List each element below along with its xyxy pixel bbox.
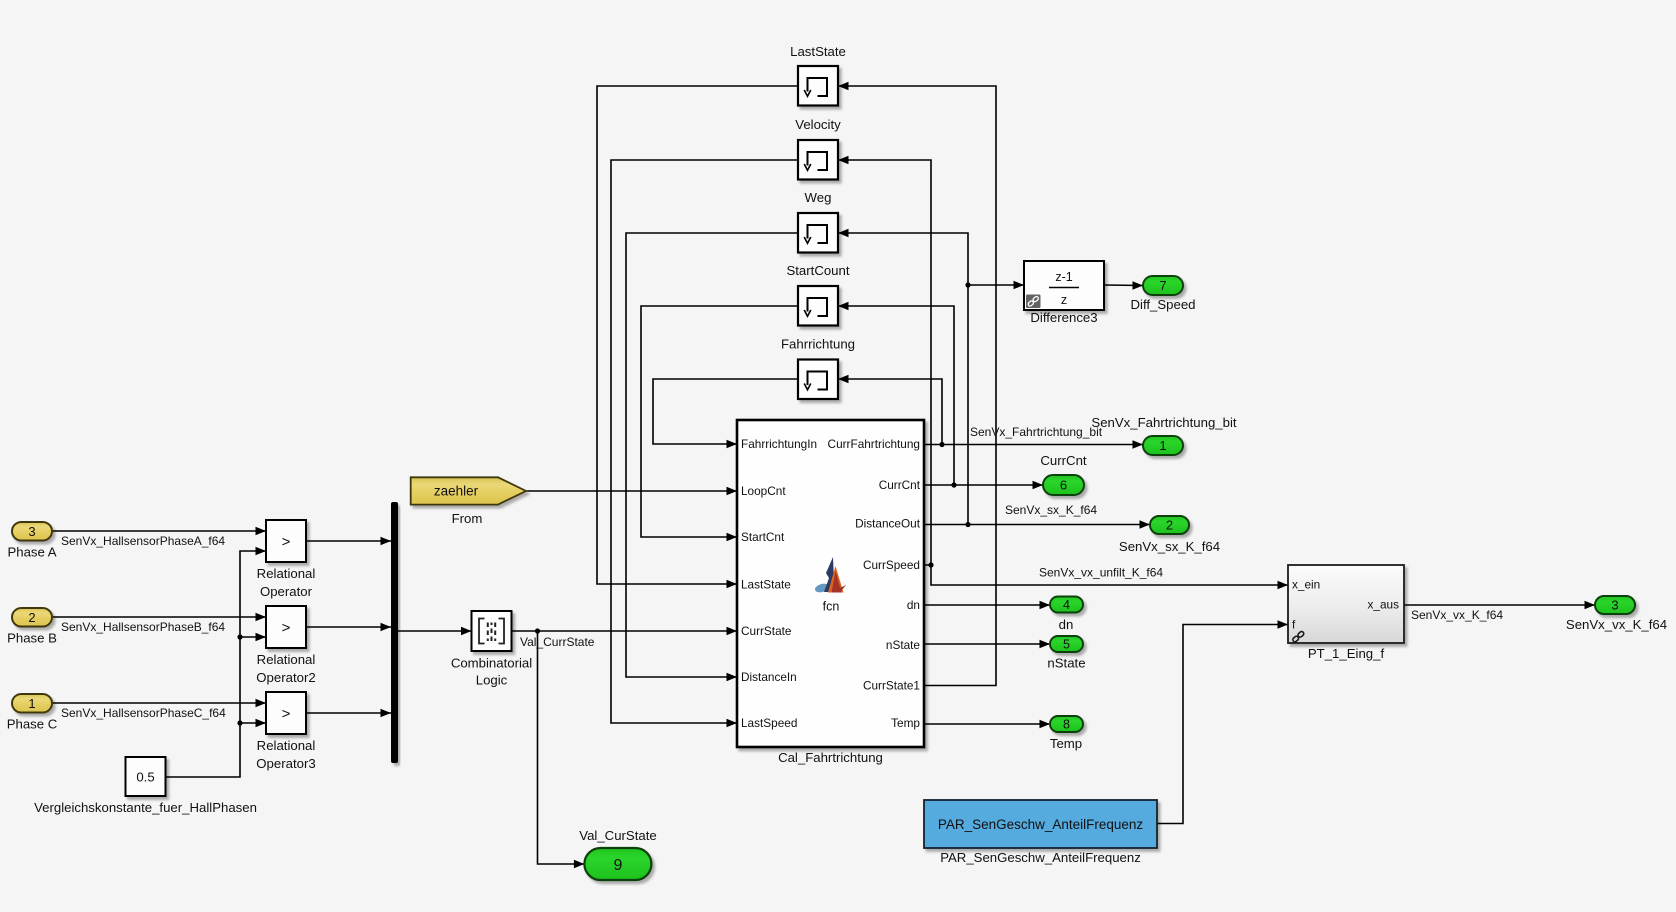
svg-text:2: 2: [28, 610, 35, 625]
svg-text:4: 4: [1063, 598, 1070, 612]
wire CurrState1 feedback to LastState memory: [838, 86, 996, 686]
svg-text:SenVx_Fahrtrichtung_bit: SenVx_Fahrtrichtung_bit: [970, 425, 1103, 439]
wire LastState memory out to fcn LastState: [597, 86, 798, 584]
memory block Fahrrichtung: [798, 360, 838, 400]
svg-text:Fahrrichtung: Fahrrichtung: [781, 337, 855, 352]
svg-text:nState: nState: [1047, 656, 1085, 671]
svg-text:Logic: Logic: [476, 673, 508, 688]
svg-text:Phase A: Phase A: [7, 545, 56, 560]
MATLAB logo: [814, 557, 846, 594]
outport 7 Diff_Speed: [1143, 276, 1183, 295]
svg-text:DistanceOut: DistanceOut: [855, 517, 921, 531]
wire Mux to Combinatorial Logic: [398, 630, 472, 632]
wire StartCount memory out to fcn StartCnt: [641, 306, 798, 537]
svg-text:>: >: [282, 620, 291, 637]
svg-text:Weg: Weg: [805, 190, 832, 205]
PT_1_Eing_f library link icon: [1292, 631, 1305, 643]
difference3 block: [1024, 261, 1104, 310]
memory block Velocity: [798, 140, 838, 180]
wire RelationalOperator2 to Mux in2: [306, 626, 391, 628]
wire Fahrrichtung memory out to fcn FahrrichtungIn: [653, 379, 798, 444]
combinatorial logic block: [472, 611, 512, 651]
fcn output labels: [828, 437, 921, 730]
svg-text:8: 8: [1063, 718, 1070, 732]
wire Difference3 to outport 7: [1104, 284, 1143, 287]
wire CurrCnt to outport 6: [924, 484, 1043, 486]
svg-text:DistanceIn: DistanceIn: [741, 670, 797, 684]
svg-text:SenVx_sx_K_f64: SenVx_sx_K_f64: [1119, 539, 1220, 554]
wire Val_CurrState to fcn CurrState: [512, 630, 738, 632]
from tag zaehler: [411, 477, 526, 504]
svg-text:Temp: Temp: [891, 716, 920, 730]
svg-text:Velocity: Velocity: [795, 117, 841, 132]
svg-text:Temp: Temp: [1050, 736, 1082, 751]
relational operator block: [266, 520, 306, 562]
svg-text:z-1: z-1: [1055, 270, 1072, 284]
svg-text:3: 3: [1611, 598, 1618, 613]
svg-text:LastState: LastState: [741, 578, 791, 592]
svg-text:nState: nState: [886, 638, 921, 652]
mux: [391, 502, 398, 763]
svg-text:dn: dn: [907, 598, 920, 612]
wire RelationalOperator to Mux in1: [306, 540, 391, 542]
svg-text:CurrState: CurrState: [741, 624, 792, 638]
svg-text:LastSpeed: LastSpeed: [741, 716, 797, 730]
svg-text:x_ein: x_ein: [1292, 578, 1320, 592]
combinatorial logic icon: [479, 619, 504, 644]
svg-text:>: >: [282, 534, 291, 551]
svg-text:7: 7: [1159, 278, 1166, 293]
svg-text:Phase B: Phase B: [7, 631, 57, 646]
junction on constant net at RO2: [237, 634, 242, 639]
difference3 fraction bar: [1049, 287, 1079, 289]
outport 2 SenVx_sx_K_f64: [1150, 516, 1189, 534]
wire CurrSpeed SenVx_vx_unfilt_K_f64 to PT_1_Eing_f x_ein: [924, 565, 1288, 585]
svg-text:Val_CurState: Val_CurState: [579, 828, 656, 843]
memory block Weg icon: [804, 225, 827, 243]
svg-text:0.5: 0.5: [136, 770, 154, 785]
wire CurrFahrtrichtung to outport 1: [924, 444, 1143, 446]
outport 8 Temp: [1050, 716, 1083, 732]
svg-text:6: 6: [1060, 478, 1067, 493]
svg-text:2: 2: [1166, 518, 1173, 533]
svg-text:PAR_SenGeschw_AnteilFrequenz: PAR_SenGeschw_AnteilFrequenz: [940, 850, 1141, 865]
junction on Weg feedback to Difference3: [965, 282, 970, 287]
svg-text:SenVx_Fahrtrichtung_bit: SenVx_Fahrtrichtung_bit: [1091, 415, 1236, 430]
svg-text:9: 9: [613, 857, 622, 874]
svg-text:CurrCnt: CurrCnt: [1040, 453, 1086, 468]
memory block LastState: [798, 66, 838, 106]
wire branch to RelationalOperator3 in2: [240, 722, 266, 724]
relational operator 2 block: [266, 606, 306, 648]
svg-text:Cal_Fahrtrichtung: Cal_Fahrtrichtung: [778, 750, 883, 765]
svg-text:Relational: Relational: [257, 566, 316, 581]
outport 3 SenVx_vx_K_f64: [1595, 596, 1635, 614]
wire Weg memory out to fcn DistanceIn: [626, 233, 798, 677]
wire PhaseA to RelationalOperator in1: [52, 530, 266, 532]
wire Temp to outport 8: [924, 723, 1050, 725]
wire branch to RelationalOperator2 in2: [240, 636, 266, 638]
svg-text:SenVx_vx_K_f64: SenVx_vx_K_f64: [1411, 608, 1503, 622]
svg-text:Val_CurrState: Val_CurrState: [520, 635, 595, 649]
svg-text:FahrrichtungIn: FahrrichtungIn: [741, 437, 817, 451]
svg-text:From: From: [452, 511, 483, 526]
svg-text:StartCnt: StartCnt: [741, 530, 785, 544]
subsystem block PT_1_Eing_f: [1288, 565, 1404, 643]
svg-text:SenVx_HallsensorPhaseB_f64: SenVx_HallsensorPhaseB_f64: [61, 620, 225, 634]
svg-text:SenVx_sx_K_f64: SenVx_sx_K_f64: [1005, 503, 1097, 517]
inport 1 Phase C: [12, 694, 52, 713]
wire nState to outport 5: [924, 643, 1050, 645]
wire Velocity memory out to fcn LastSpeed: [611, 160, 798, 723]
outport 9 Val_CurState: [584, 848, 651, 880]
svg-text:zaehler: zaehler: [434, 484, 479, 499]
svg-text:z: z: [1061, 293, 1067, 307]
svg-text:3: 3: [28, 524, 35, 539]
svg-text:CurrState1: CurrState1: [863, 679, 920, 693]
svg-text:SenVx_vx_K_f64: SenVx_vx_K_f64: [1566, 617, 1667, 632]
wire constant 0.5 to RelationalOperator in2: [166, 551, 267, 777]
svg-text:Combinatorial: Combinatorial: [451, 656, 532, 671]
svg-text:Operator: Operator: [260, 584, 313, 599]
memory block Fahrrichtung icon: [804, 372, 827, 390]
svg-text:dn: dn: [1059, 617, 1074, 632]
svg-text:Relational: Relational: [257, 652, 316, 667]
svg-text:fcn: fcn: [823, 600, 840, 614]
wire Val_CurrState to outport 9: [538, 631, 585, 864]
inport 2 Phase B: [12, 608, 52, 627]
svg-text:PT_1_Eing_f: PT_1_Eing_f: [1308, 646, 1385, 661]
outport 5 nState: [1050, 636, 1083, 652]
svg-text:1: 1: [28, 696, 35, 711]
constant block PAR_SenGeschw_AnteilFrequenz: [924, 800, 1157, 848]
wire x_aus SenVx_vx_K_f64 to outport 3: [1404, 604, 1595, 606]
svg-text:SenVx_HallsensorPhaseA_f64: SenVx_HallsensorPhaseA_f64: [61, 534, 225, 548]
memory block Velocity icon: [804, 152, 827, 170]
svg-text:SenVx_vx_unfilt_K_f64: SenVx_vx_unfilt_K_f64: [1039, 566, 1163, 580]
svg-text:1: 1: [1159, 438, 1166, 453]
svg-text:5: 5: [1063, 638, 1070, 652]
svg-text:>: >: [282, 706, 291, 723]
fcn input labels: [741, 437, 817, 730]
wire branch to Difference3: [968, 284, 1024, 286]
outport 1 SenVx_Fahrtrichtung_bit: [1143, 436, 1183, 455]
junction Val_CurrState: [535, 628, 540, 633]
memory block LastState icon: [804, 78, 827, 96]
svg-text:LastState: LastState: [790, 44, 846, 59]
junction CurrSpeed: [928, 562, 933, 567]
svg-text:Phase C: Phase C: [7, 717, 58, 732]
svg-text:Vergleichskonstante_fuer_HallP: Vergleichskonstante_fuer_HallPhasen: [34, 800, 257, 815]
junction CurrCnt: [951, 482, 956, 487]
difference3 library link badge: [1026, 295, 1041, 309]
wire PhaseC to RelationalOperator3 in1: [52, 702, 266, 704]
svg-text:PAR_SenGeschw_AnteilFrequenz: PAR_SenGeschw_AnteilFrequenz: [938, 817, 1144, 832]
memory block StartCount: [798, 286, 838, 326]
svg-text:CurrSpeed: CurrSpeed: [863, 558, 920, 572]
outport 6 CurrCnt: [1043, 475, 1084, 495]
svg-text:LoopCnt: LoopCnt: [741, 484, 786, 498]
wire RelationalOperator3 to Mux in3: [306, 712, 391, 714]
memory block Weg: [798, 213, 838, 253]
MATLAB function block Cal_Fahrtrichtung: [737, 420, 924, 747]
outport 4 dn: [1050, 597, 1083, 613]
memory block StartCount icon: [804, 298, 827, 316]
svg-text:CurrCnt: CurrCnt: [879, 478, 921, 492]
svg-text:SenVx_HallsensorPhaseC_f64: SenVx_HallsensorPhaseC_f64: [61, 706, 226, 720]
svg-text:Relational: Relational: [257, 738, 316, 753]
junction DistanceOut: [965, 522, 970, 527]
wire dn to outport 4: [924, 604, 1050, 606]
junction on constant net at RO3: [237, 720, 242, 725]
wire feedback to Fahrrichtung memory: [838, 379, 942, 445]
svg-text:Operator2: Operator2: [256, 670, 315, 685]
constant 0.5 block: [126, 757, 166, 796]
wire feedback to Weg memory: [838, 233, 968, 525]
svg-text:x_aus: x_aus: [1368, 598, 1400, 612]
svg-text:StartCount: StartCount: [786, 263, 849, 278]
wire From zaehler to fcn LoopCnt: [526, 490, 737, 492]
wire feedback to Velocity memory: [838, 160, 931, 565]
svg-text:Diff_Speed: Diff_Speed: [1130, 297, 1195, 312]
wire feedback to StartCount memory: [838, 306, 954, 485]
svg-text:CurrFahrtrichtung: CurrFahrtrichtung: [828, 437, 920, 451]
wire PhaseB to RelationalOperator2 in1: [52, 616, 266, 618]
wire DistanceOut to outport 2: [924, 524, 1150, 526]
junction CurrFahrtrichtung: [939, 442, 944, 447]
inport 3 Phase A: [12, 522, 52, 541]
svg-text:Operator3: Operator3: [256, 756, 315, 771]
wire PAR_SenGeschw_AnteilFrequenz to PT_1_Eing_f f: [1157, 625, 1288, 824]
relational operator 3 block: [266, 692, 306, 734]
svg-text:Difference3: Difference3: [1030, 310, 1097, 325]
